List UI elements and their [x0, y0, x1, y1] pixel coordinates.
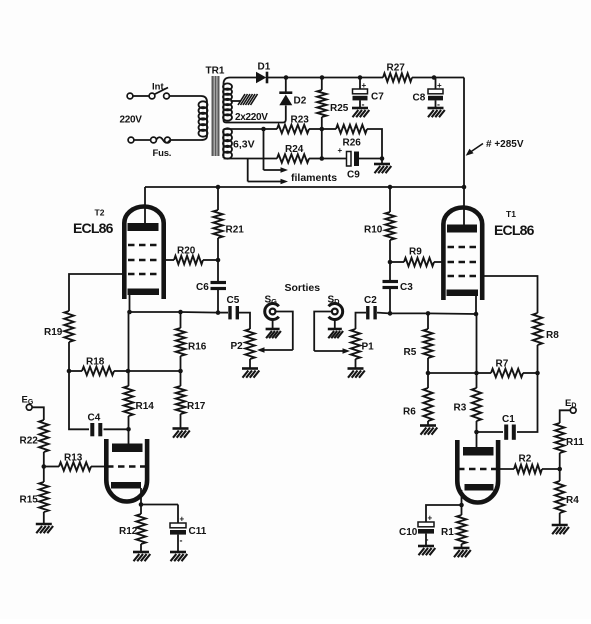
svg-text:C7: C7 [371, 92, 384, 103]
junction node R20/C6 [216, 258, 221, 263]
junction node R7 right [535, 371, 540, 376]
label P1 [362, 342, 375, 353]
junction node C7 top [358, 75, 363, 80]
resistor R8 [533, 313, 542, 345]
wire R5 to R6 [427, 358, 429, 388]
diode D1 [256, 72, 267, 84]
label EG [22, 395, 34, 407]
tube T1 grid 2 (dashed) [448, 261, 480, 264]
capacitor C4 [92, 423, 100, 436]
wire C2 to C3 node [377, 312, 390, 315]
ground (R17) [173, 429, 190, 438]
label C2 [364, 295, 377, 306]
wire T2 cathode node to R14 [128, 312, 130, 386]
svg-text:P2: P2 [231, 341, 244, 352]
junction node C8 top [432, 75, 437, 80]
junction node filament tap 1 [261, 127, 266, 132]
label C9 [347, 170, 360, 181]
junction node R16 top [178, 310, 183, 315]
svg-text:R1: R1 [441, 527, 454, 538]
label SD [328, 295, 341, 307]
svg-text:D1: D1 [258, 62, 271, 73]
label R26 [343, 138, 362, 149]
label R6 [403, 407, 416, 418]
svg-text:SG: SG [265, 295, 278, 307]
resistor R27 [383, 73, 412, 81]
wire node to R15 [43, 467, 45, 483]
svg-text:R5: R5 [404, 347, 417, 358]
wire C1 to plate node [477, 431, 504, 433]
ground (C11) [170, 552, 187, 561]
ground (P1) [348, 369, 365, 378]
switch Int. right contact circle [164, 93, 170, 99]
capacitor C2 [368, 306, 375, 319]
fuse Fus. left circle [151, 137, 157, 143]
svg-text:R13: R13 [64, 453, 83, 464]
svg-text:R19: R19 [44, 327, 63, 338]
label R8 [546, 330, 559, 341]
wire T1 grid3 to R8 column [485, 276, 538, 313]
filament arrow 2 [248, 179, 288, 185]
label R11 [566, 437, 584, 448]
label ECL86 (T2) [73, 220, 114, 236]
label R9 [409, 247, 422, 258]
wire T2 grid3 to R19 column [69, 274, 122, 311]
wire R25 to R23 row [321, 117, 323, 129]
label R7 [496, 359, 509, 370]
capacitor C7 (electrolytic) [353, 81, 368, 110]
wire rail to R21 [217, 187, 219, 210]
wire HT winding top to D1 [224, 78, 257, 85]
svg-text:R17: R17 [187, 401, 206, 412]
wire C6 node to C5 [218, 312, 228, 314]
wire R18 row to R16 column [128, 370, 181, 372]
wire R10 to R9 node [389, 240, 391, 262]
label Fus. [153, 148, 172, 159]
wire R5 top stub [427, 313, 429, 329]
label Sorties [285, 282, 321, 294]
resistor R4 [555, 481, 564, 513]
input terminal ED [570, 407, 576, 413]
wire T1 cathode down [475, 296, 477, 314]
label R25 [330, 103, 349, 114]
wire C9 to ground node [359, 158, 382, 160]
junction node R21 rail [216, 185, 221, 190]
label R27 [387, 63, 406, 74]
junction node R10 rail [388, 185, 393, 190]
wire R12 bottom [140, 544, 142, 552]
resistor R2 [514, 465, 542, 473]
svg-text:R24: R24 [285, 144, 304, 155]
wire top rail D2-node to R25-node [286, 77, 322, 79]
svg-text:SD: SD [328, 295, 341, 307]
junction node R18 left [67, 369, 72, 374]
wire EG to R22 [32, 407, 44, 420]
wire R21 to R20 node [217, 238, 219, 260]
junction node T2 cathode/R12 [139, 502, 144, 507]
wire R26 to ground column [367, 129, 382, 159]
ground (SG) [266, 329, 281, 338]
tube T1 triode grid (dashed) [458, 468, 498, 471]
wire R6 bottom [427, 421, 429, 426]
resistor R16 [176, 328, 185, 356]
svg-text:R25: R25 [330, 103, 349, 114]
svg-text:2x220V: 2x220V [235, 112, 268, 123]
ground (R4) [552, 525, 569, 534]
svg-text:P1: P1 [362, 342, 375, 353]
wire cathode node to C11 [141, 504, 178, 506]
fuse element [156, 137, 170, 143]
svg-text:C9: C9 [347, 170, 360, 181]
label 6,3V [233, 139, 255, 151]
junction node R14/R18 [126, 369, 131, 374]
wire stub SD ground [334, 320, 336, 330]
resistor R7 [491, 369, 523, 377]
wire R18 node to zigzag [69, 370, 82, 372]
wire R7 row to R5 column [428, 372, 477, 374]
svg-text:R7: R7 [496, 359, 509, 370]
resistor R11 [555, 423, 564, 453]
junction node R5 top [426, 311, 431, 316]
svg-text:R16: R16 [188, 342, 207, 353]
wire R5 node to T1 cathode [428, 312, 476, 315]
wire C6 to output row [217, 289, 219, 313]
label TR1 [206, 66, 225, 77]
wire R15 bottom [43, 512, 45, 524]
svg-text:C1: C1 [502, 414, 515, 425]
ground (C10) [418, 546, 435, 555]
wire R25 node down to R24 row [321, 129, 323, 159]
connector SD [329, 303, 343, 319]
resistor R3 [472, 388, 481, 421]
resistor R24 [277, 154, 309, 162]
capacitor C6 [211, 283, 227, 289]
transformer secondary HT winding 2x220V [223, 83, 232, 120]
resistor R14 [124, 386, 133, 416]
potentiometer P1 [351, 329, 360, 359]
svg-text:+: + [180, 515, 185, 524]
ground (R1) [454, 548, 471, 557]
svg-text:C2: C2 [364, 295, 377, 306]
svg-text:C5: C5 [227, 295, 240, 306]
ground (P2) [242, 369, 259, 378]
junction node +285V rail [462, 185, 467, 190]
svg-text:Fus.: Fus. [153, 148, 172, 159]
wire T1 cathode node to R3 [476, 314, 478, 388]
junction node C1/R3/plate [474, 430, 479, 435]
junction node D1/D2 [284, 75, 289, 80]
resistor R13 [59, 462, 91, 470]
junction node R2/R11/R4 [557, 467, 562, 472]
svg-text:R3: R3 [454, 403, 467, 414]
wire HT winding center tap [231, 100, 242, 102]
label 2x220V [235, 112, 268, 123]
label Int. [152, 82, 166, 93]
wire T2 cathode row [130, 311, 181, 313]
wire R25-node to R26 [322, 128, 336, 130]
label R18 [86, 357, 105, 368]
svg-text:R12: R12 [119, 526, 138, 537]
wire fuse to transformer primary bottom [170, 136, 207, 140]
wire R14 to plate node [128, 416, 130, 429]
wire P2 bottom [249, 359, 251, 369]
tube T2 triode grid (dashed) [107, 465, 147, 468]
wire R13 to T2 triode grid [91, 466, 107, 468]
wire P1 bottom [355, 359, 357, 369]
svg-text:R22: R22 [20, 436, 39, 447]
wire R9 node to zigzag [390, 261, 404, 263]
wire SG to P2 wiper [276, 312, 293, 351]
label C3 [400, 282, 413, 293]
wire stub C7 bottom [359, 100, 361, 108]
diode D2 [279, 93, 292, 106]
wire R20 node to C6 [217, 260, 219, 281]
svg-text:Int.: Int. [152, 82, 166, 93]
wire R8 to R7 node [537, 345, 539, 373]
wire R3 to plate node [476, 421, 478, 432]
svg-text:R2: R2 [519, 454, 532, 465]
wire C7-node to R27 [360, 77, 383, 79]
label ECL86 (T1) [494, 222, 535, 238]
transformer primary winding [199, 101, 208, 136]
label R1 [441, 527, 454, 538]
svg-text:+: + [428, 514, 433, 523]
capacitor C8 (electrolytic) [428, 81, 443, 110]
label R16 [188, 342, 207, 353]
tube T2 cathode bar [128, 289, 160, 296]
label C7 [371, 92, 384, 103]
switch Int. lever [154, 88, 168, 95]
wire stub C7 top [359, 78, 361, 90]
junction node R9/C3 [388, 260, 393, 265]
svg-text:C11: C11 [189, 526, 207, 537]
transformer secondary heater winding 6,3V [223, 128, 232, 158]
resistor R17 [176, 386, 185, 414]
tube T2 grid 3 (dashed) [128, 273, 160, 276]
wire R19 to C4 corner [69, 371, 89, 429]
label D2 [294, 96, 307, 107]
svg-text:Sorties: Sorties [285, 282, 321, 294]
wire mains bottom segment [134, 139, 151, 141]
label R17 [187, 401, 206, 412]
label C1 [502, 414, 515, 425]
label R13 [64, 453, 83, 464]
svg-text:R15: R15 [20, 495, 39, 506]
wire C5 to P2 [239, 313, 250, 329]
label R4 [566, 495, 579, 506]
wire filament tap 1 down [263, 129, 265, 170]
svg-text:TR1: TR1 [206, 66, 225, 77]
label R22 [20, 436, 39, 447]
wire HT winding bottom to D2 [224, 106, 286, 123]
resistor R15 [39, 482, 48, 512]
label C8 [413, 93, 426, 104]
wire cathode node to R1 [461, 505, 463, 515]
svg-text:R18: R18 [86, 357, 105, 368]
wire R7 to R8 column [523, 372, 538, 374]
svg-text:C4: C4 [88, 413, 101, 424]
wire R20 to node [203, 259, 218, 261]
resistor R25 [317, 90, 326, 117]
wire R24 to C9 node [309, 158, 322, 160]
wire R9 to T1 grid2 [434, 261, 443, 263]
wire R22 to R13 node [43, 452, 45, 467]
junction node R23/R26 [320, 127, 325, 132]
tube T1 plate bar [447, 225, 477, 233]
chassis ground hatch (HT center tap) [238, 94, 258, 105]
label C10 [399, 527, 418, 538]
label filaments [291, 172, 337, 184]
label R21 [226, 225, 245, 236]
svg-text:R9: R9 [409, 247, 422, 258]
wire +285V vertical [463, 78, 465, 188]
wire plate node to T1 triode plate [476, 432, 478, 448]
capacitor C9 (electrolytic) [338, 146, 360, 166]
svg-text:220V: 220V [120, 115, 143, 126]
wire node to R2 [542, 468, 560, 470]
svg-text:C6: C6 [196, 282, 209, 293]
svg-text:R26: R26 [343, 138, 362, 149]
label ED [565, 398, 576, 410]
tube T1 grid 3 (dashed) [448, 275, 480, 278]
wire R23 to node [309, 128, 322, 130]
wire C3 node to R5 node [390, 312, 428, 314]
wire heater winding bottom to R24 [224, 158, 278, 160]
mains terminal top-left [127, 93, 133, 99]
tube T1 triode plate bar [463, 447, 494, 456]
wire cathode node to R12 [140, 505, 142, 515]
wire C8-node to +285V corner [434, 77, 464, 79]
wire plate node to T2 triode plate [128, 429, 130, 445]
wire T2 triode cathode down [140, 488, 142, 505]
ground (C9/R26) [374, 164, 391, 173]
label C6 [196, 282, 209, 293]
wire R4 bottom [559, 513, 561, 525]
wire rail corner down to T2 plate [144, 187, 146, 224]
wire row to C6 node [181, 311, 219, 314]
wire stub C10 bottom [425, 534, 427, 546]
capacitor C10 (electrolytic) [418, 514, 434, 545]
tube T2 triode envelope [106, 439, 147, 502]
label R19 [44, 327, 63, 338]
svg-text:R23: R23 [291, 115, 310, 126]
svg-text:R6: R6 [403, 407, 416, 418]
wire C3 to output row [389, 288, 391, 314]
resistor R26 [336, 125, 367, 133]
wire R17 bottom [180, 414, 182, 429]
fuse Fus. right circle [165, 137, 171, 143]
resistor R21 [213, 210, 222, 238]
mains terminal bottom-left [128, 137, 134, 143]
wire T2 grid2 to R20 [166, 259, 174, 261]
wire node to R13 [44, 466, 59, 468]
resistor R5 [423, 329, 432, 358]
svg-text:R21: R21 [226, 225, 245, 236]
ground (R12) [133, 552, 150, 561]
tube T2 triode plate bar [112, 444, 143, 453]
label D1 [258, 62, 271, 73]
wire stub C8 top [435, 78, 437, 90]
svg-text:+: + [338, 146, 343, 155]
svg-text:C8: C8 [413, 93, 426, 104]
label C11 [189, 526, 207, 537]
label C5 [227, 295, 240, 306]
wire rail to R10 [389, 187, 391, 212]
wire R16 top stub [180, 312, 182, 328]
label 220V [120, 115, 143, 126]
svg-text:R10: R10 [364, 225, 383, 236]
wire R19 to R18 node [68, 342, 70, 371]
label R2 [519, 454, 532, 465]
input terminal EG [26, 404, 32, 410]
wire R9 node to C3 [389, 262, 391, 280]
label R24 [285, 144, 304, 155]
junction node R5 bottom [426, 371, 431, 376]
wire stub SG ground [272, 320, 274, 330]
wire node to R4 [559, 469, 561, 481]
resistor R9 [404, 258, 434, 266]
capacitor C5 [230, 306, 237, 319]
junction node R3/R7 [474, 371, 479, 376]
potentiometer P1 wiper arrow [314, 348, 350, 354]
wire T2 cathode down [129, 295, 131, 312]
junction node C6 bottom [216, 310, 221, 315]
switch Int. contact circle [149, 93, 155, 99]
junction node T1 cathode row [474, 312, 479, 317]
wire +285V down to T1 plate [463, 187, 465, 226]
wire stub C8 bottom [435, 100, 437, 108]
resistor R10 [385, 212, 394, 240]
tube T1 cathode bar [447, 290, 479, 297]
label T2 [95, 208, 105, 218]
wire stub C9 ground [381, 159, 383, 165]
resistor R23 [277, 125, 309, 133]
svg-text:R4: R4 [566, 495, 579, 506]
svg-text:ECL86: ECL86 [73, 220, 114, 236]
ground (R15) [36, 524, 53, 533]
label R23 [291, 115, 310, 126]
wire heater winding top to filament node [224, 128, 264, 130]
wire R2 to T1 triode grid [498, 468, 515, 470]
wire D2 to top rail [285, 78, 287, 93]
tube T2 grid 1 (dashed) [128, 244, 160, 247]
resistor R1 [457, 515, 466, 544]
junction node R13/R22/R15 [42, 464, 47, 469]
svg-text:R20: R20 [177, 246, 196, 257]
label R15 [20, 495, 39, 506]
potentiometer P2 [245, 329, 254, 359]
tube T1 pentode envelope [443, 208, 482, 301]
wire switch to transformer primary top [169, 96, 207, 102]
transformer TR1 core [212, 76, 220, 156]
resistor R18 [82, 367, 114, 375]
svg-text:# +285V: # +285V [486, 139, 524, 150]
wire R27 to C8-node [412, 77, 434, 79]
svg-text:+: + [362, 81, 367, 90]
junction node C3 bottom [388, 311, 393, 316]
wire mains top segment [133, 95, 149, 97]
svg-text:C10: C10 [399, 527, 418, 538]
wire C9 node to C9 [322, 158, 347, 160]
svg-text:D2: D2 [294, 96, 307, 107]
wire stub C11 bottom [177, 535, 179, 552]
resistor R20 [174, 256, 203, 264]
svg-text:T2: T2 [95, 208, 105, 218]
svg-text:ECL86: ECL86 [494, 222, 535, 238]
junction node R24/C9 [320, 156, 325, 161]
resistor R22 [39, 420, 48, 452]
svg-text:T1: T1 [506, 209, 516, 219]
